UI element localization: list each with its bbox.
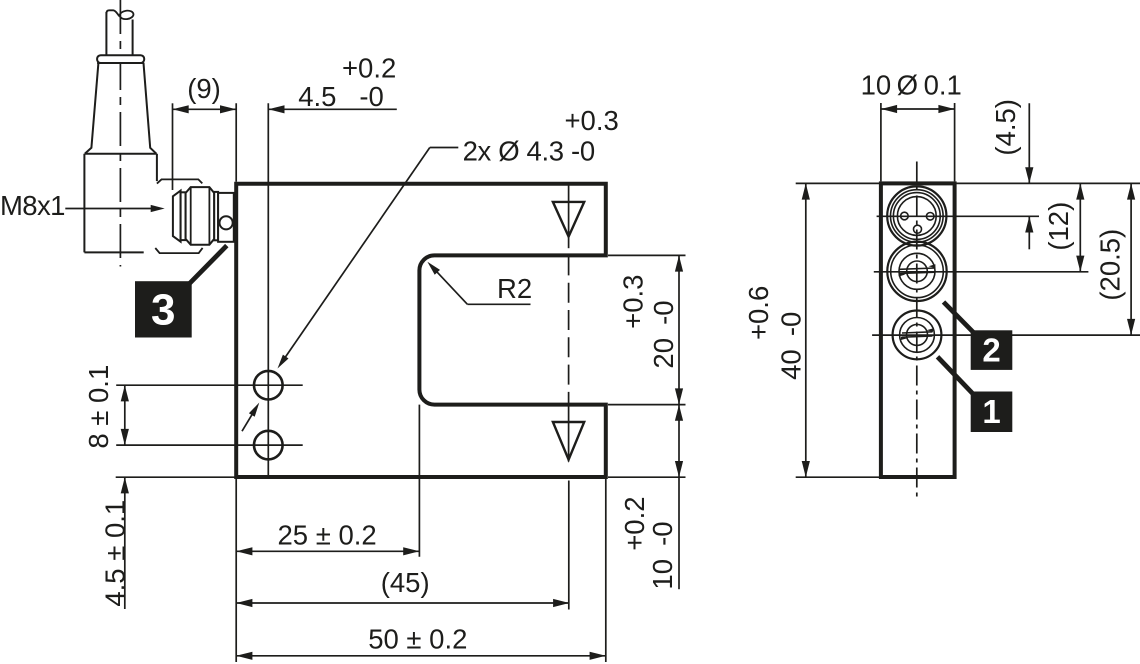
svg-text:+0.3: +0.3	[565, 105, 619, 136]
ext line side body top-left (up)	[880, 103, 882, 181]
connector pin bottom	[914, 225, 922, 233]
locating pin circle	[220, 216, 233, 229]
dimension 4.5 +0.2/-0	[268, 108, 397, 110]
mounting hole upper (2x Ø4.3)	[254, 371, 283, 400]
dimension 8 ±0.1	[124, 385, 126, 445]
svg-text:3: 3	[151, 286, 175, 335]
ext line top edge level	[796, 182, 1140, 184]
dimension (45)	[236, 602, 569, 604]
callout 1 leader	[938, 357, 976, 396]
svg-text:+0.2: +0.2	[342, 52, 396, 83]
phantom contour bottom	[155, 248, 202, 253]
connector elbow body	[83, 154, 85, 253]
connector ring D	[214, 192, 218, 240]
extension line bottom edge left	[116, 476, 236, 478]
svg-text:40 -0: 40 -0	[776, 312, 807, 380]
optical axis mark triangle (bottom arm)	[553, 422, 584, 460]
cable centerline (dash-dot)	[119, 0, 121, 267]
receiver lens screw slot	[902, 332, 933, 333]
receiver lens circles (bottom)	[893, 311, 942, 360]
svg-text:2x Ø 4.3 -0: 2x Ø 4.3 -0	[463, 136, 595, 167]
fork sensor body outline (front view)	[236, 184, 606, 477]
hole centerline vertical	[267, 103, 269, 477]
ext line side body top-right (up)	[954, 103, 956, 181]
second leader arrow to hole	[242, 411, 254, 431]
dimension 10 Ø0.1 (top)	[881, 108, 955, 110]
dimension 10 +0.2/-0	[678, 405, 680, 478]
svg-text:(4.5): (4.5)	[990, 99, 1021, 156]
callout 3 leader	[190, 246, 227, 284]
hole centerline horizontal (lower)	[116, 444, 303, 446]
connector boot (taper)	[85, 63, 99, 154]
sender lens circles (middle)	[887, 242, 946, 301]
svg-text:M8x1: M8x1	[0, 190, 65, 221]
dimension (4.5)	[1028, 103, 1030, 183]
connector ring C (knurled nut)	[186, 187, 215, 245]
svg-text:(12): (12)	[1043, 202, 1074, 251]
extension line body left edge (down)	[235, 477, 237, 662]
side view centerline (dash-dot)	[916, 162, 918, 498]
svg-text:25 ± 0.2: 25 ± 0.2	[277, 519, 376, 550]
optical axis line (solid in arms, dashed in slot)	[568, 184, 570, 249]
sender lens screw slot	[899, 268, 935, 269]
leader to holes	[430, 147, 459, 149]
svg-text:4.5 -0: 4.5 -0	[298, 81, 384, 112]
callout box 2	[971, 330, 1013, 370]
cable end	[106, 10, 119, 16]
extension line connector front face	[172, 103, 174, 190]
ext line connector center	[877, 215, 1039, 217]
hole centerline horizontal (upper)	[116, 384, 303, 386]
connector pin left	[901, 212, 909, 220]
extension line slot left edge (down)	[418, 405, 420, 557]
extension line body bottom edge (right)	[608, 476, 686, 478]
M8x1 leader arrow	[65, 208, 153, 210]
ext line bottom lens center	[872, 334, 1140, 336]
svg-text:+0.3: +0.3	[618, 275, 649, 329]
svg-text:(9): (9)	[187, 73, 221, 104]
connector ring B	[181, 192, 186, 240]
dimension 4.5 ±0.1	[124, 477, 126, 609]
svg-text:4.5 ± 0.1: 4.5 ± 0.1	[99, 500, 130, 607]
svg-text:10 Ø 0.1: 10 Ø 0.1	[861, 70, 962, 101]
phantom contour top	[157, 179, 202, 183]
svg-text:(45): (45)	[381, 567, 430, 598]
dimension 50 ±0.2	[236, 655, 606, 657]
dimension 20 +0.3/-0	[678, 255, 680, 404]
side view body outline	[881, 183, 955, 477]
callout 2 leader	[944, 302, 976, 334]
svg-text:1: 1	[982, 393, 1000, 430]
svg-text:(20.5): (20.5)	[1095, 229, 1126, 301]
dimension (20.5)	[1130, 183, 1132, 335]
svg-text:20 -0: 20 -0	[648, 300, 679, 368]
M8 connector face circles	[887, 186, 946, 245]
connector end cylinder	[218, 193, 234, 242]
ext line middle lens center	[874, 271, 1089, 273]
optical axis mark triangle (top arm)	[553, 202, 584, 237]
svg-text:8 ± 0.1: 8 ± 0.1	[83, 365, 114, 449]
svg-text:50 ± 0.2: 50 ± 0.2	[368, 624, 467, 655]
extension line body right edge (down)	[605, 477, 607, 662]
mounting hole lower (2x Ø4.3)	[254, 431, 283, 460]
svg-text:10 -0: 10 -0	[647, 521, 678, 589]
extension line body left edge (up)	[235, 103, 237, 181]
connector collar nut	[97, 55, 144, 63]
dimension (12)	[1079, 183, 1081, 271]
dimension 25 ±0.2	[236, 550, 419, 552]
svg-text:R2: R2	[497, 273, 532, 304]
svg-text:+0.2: +0.2	[619, 496, 650, 550]
callout box 1	[971, 392, 1013, 433]
extension line slot top edge (right)	[608, 254, 686, 256]
connector ring A	[173, 191, 181, 242]
connector pin right	[926, 213, 934, 221]
ext line bottom edge level	[796, 476, 880, 478]
dimension (9)	[173, 108, 237, 110]
cable lines	[105, 12, 107, 55]
svg-text:+0.6: +0.6	[743, 286, 774, 340]
callout box 3	[135, 281, 192, 337]
dimension 40 +0.6/-0	[805, 183, 807, 477]
svg-text:2: 2	[982, 332, 1000, 369]
extension line slot bottom edge (right)	[608, 404, 686, 406]
